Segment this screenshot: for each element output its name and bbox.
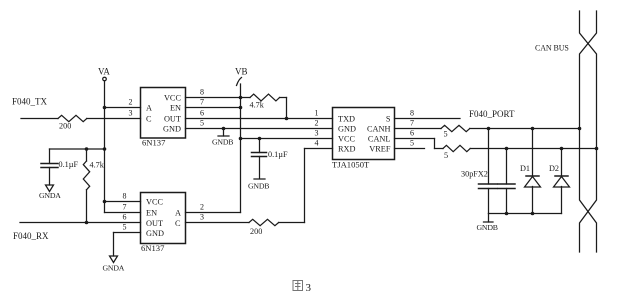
svg-text:F040_RX: F040_RX <box>13 231 49 241</box>
svg-text:D2: D2 <box>549 164 559 173</box>
svg-text:6N137: 6N137 <box>141 243 165 253</box>
svg-text:GNDB: GNDB <box>212 138 233 147</box>
svg-text:8: 8 <box>123 192 127 201</box>
svg-text:VCC: VCC <box>338 134 356 143</box>
resistor 4.7k (B side pull-up) <box>241 94 287 118</box>
wire opto2 VCC <box>105 201 141 203</box>
svg-text:6: 6 <box>123 213 127 222</box>
wire TX input <box>21 118 58 120</box>
capacitor 0.1uF (B side) <box>252 139 288 179</box>
ground GNDB (cap B) <box>248 179 269 191</box>
junction VA/opto2 VCC <box>103 200 107 204</box>
svg-text:200: 200 <box>59 122 71 131</box>
svg-text:VCC: VCC <box>164 94 182 103</box>
svg-text:8: 8 <box>200 88 204 97</box>
junction VB/EN1 <box>239 106 243 110</box>
svg-text:EN: EN <box>146 209 157 218</box>
wire opto2 anode to VB <box>186 212 241 214</box>
wire TJA S stub <box>395 118 461 120</box>
svg-text:2: 2 <box>200 203 204 212</box>
wire TJA RXD <box>305 149 333 223</box>
svg-text:RXD: RXD <box>338 145 356 154</box>
svg-text:4.7k: 4.7k <box>90 161 105 170</box>
junction GNDB stub <box>222 127 226 131</box>
wire VB vertical rail <box>240 84 242 213</box>
svg-text:30pFX2: 30pFX2 <box>461 170 488 179</box>
wire opto1 EN to VB <box>186 107 241 109</box>
resistor 200 (TX series) <box>58 115 87 130</box>
svg-text:VA: VA <box>98 67 110 77</box>
ground GNDB (opto1) <box>212 129 233 147</box>
junction CANH/D1 <box>531 127 535 131</box>
junction VB/TJA VCC <box>239 137 243 141</box>
diode D1 <box>520 129 541 214</box>
ground GNDA (left) <box>39 185 61 200</box>
node VA terminal <box>98 67 110 81</box>
wire TJA VREF stub <box>395 148 425 150</box>
node VB terminal <box>235 67 248 86</box>
capacitor 30pF no.2 <box>498 149 515 214</box>
svg-text:TJA1050T: TJA1050T <box>332 160 370 170</box>
svg-text:GND: GND <box>163 124 181 133</box>
svg-text:5: 5 <box>444 151 448 160</box>
svg-text:OUT: OUT <box>164 114 181 123</box>
svg-text:S: S <box>386 114 391 123</box>
svg-text:GND: GND <box>338 124 356 133</box>
svg-text:VB: VB <box>235 67 248 77</box>
wire F040_RX line <box>20 222 141 224</box>
svg-text:GNDA: GNDA <box>39 191 61 200</box>
wire opto1 OUT to TJA TXD <box>186 118 333 120</box>
junction VA/opto1 anode <box>103 106 107 110</box>
wire opto1 GND to TJA GND <box>186 128 333 130</box>
svg-text:TXD: TXD <box>338 114 355 123</box>
svg-text:EN: EN <box>170 104 181 113</box>
wire VB to TJA VCC <box>241 138 333 140</box>
svg-text:5: 5 <box>200 119 204 128</box>
junction pull-up/TXD <box>285 117 289 121</box>
junction CANL/bus <box>595 147 599 151</box>
junction CANH/cap1 <box>487 127 491 131</box>
svg-text:OUT: OUT <box>146 219 163 228</box>
svg-text:5: 5 <box>410 139 414 148</box>
svg-text:VCC: VCC <box>146 198 164 207</box>
wire opto1 anode <box>105 107 141 109</box>
capacitor 0.1uF (A side) <box>41 149 78 185</box>
svg-text:0.1µF: 0.1µF <box>268 150 288 159</box>
svg-text:2: 2 <box>129 98 133 107</box>
capacitor 30pF no.1 <box>479 129 498 214</box>
svg-text:F040_PORT: F040_PORT <box>469 109 515 119</box>
svg-text:6: 6 <box>200 109 204 118</box>
caption figure 3 <box>293 281 303 291</box>
CAN bus wire A <box>580 11 597 252</box>
svg-text:A: A <box>175 209 181 218</box>
wire CANH to bus <box>470 128 580 130</box>
wire CANL jog <box>395 139 444 149</box>
svg-text:C: C <box>175 219 181 228</box>
resistor 5 (CANH series) <box>441 125 470 138</box>
junction CANH/bus <box>578 127 582 131</box>
svg-text:6N137: 6N137 <box>142 138 166 148</box>
junction rail/cap2 <box>505 212 509 216</box>
wire RX resistor to RXD <box>279 222 305 224</box>
svg-text:7: 7 <box>410 119 414 128</box>
svg-text:5: 5 <box>444 130 448 139</box>
svg-text:F040_TX: F040_TX <box>12 97 48 107</box>
svg-text:3: 3 <box>315 129 319 138</box>
svg-text:3: 3 <box>306 282 312 294</box>
wire VA vertical rail <box>104 81 106 213</box>
svg-text:4.7k: 4.7k <box>250 101 265 110</box>
svg-text:A: A <box>146 104 152 113</box>
opto-coupler U2 6N137 <box>141 193 186 254</box>
transceiver TJA1050T <box>332 108 395 170</box>
diode D2 <box>549 149 570 214</box>
wire decoupling rail <box>50 148 105 150</box>
wire opto1 VCC to VB <box>186 97 241 99</box>
ground GNDA (opto2) <box>103 233 125 273</box>
ground GNDB (bus side) <box>477 214 498 233</box>
junction rail/4.7k <box>85 147 89 151</box>
wire CANL to bus <box>470 148 596 150</box>
svg-text:4: 4 <box>315 139 319 148</box>
wire opto2 GND <box>114 232 141 234</box>
svg-text:CANH: CANH <box>367 124 391 133</box>
resistor 200 (RX series) <box>249 219 279 236</box>
svg-text:3: 3 <box>200 213 204 222</box>
svg-text:GNDB: GNDB <box>477 223 498 232</box>
svg-text:CAN BUS: CAN BUS <box>535 44 569 53</box>
junction CANL/D2 <box>560 147 564 151</box>
svg-text:7: 7 <box>200 98 204 107</box>
CAN bus wire B <box>580 11 597 252</box>
svg-text:1: 1 <box>315 109 319 118</box>
resistor 4.7k (A side pull-up) <box>83 149 104 223</box>
svg-text:8: 8 <box>410 109 414 118</box>
svg-text:0.1µF: 0.1µF <box>59 160 79 169</box>
svg-text:GNDB: GNDB <box>248 182 269 191</box>
wire opto2 EN <box>105 212 141 214</box>
svg-text:7: 7 <box>123 203 127 212</box>
ground rail GNDB (bus side) <box>489 213 562 215</box>
svg-text:CANL: CANL <box>368 134 391 143</box>
svg-text:5: 5 <box>123 223 127 232</box>
junction VB/VCC1 <box>239 96 243 100</box>
svg-text:C: C <box>146 114 152 123</box>
resistor 5 (CANL series) <box>443 145 470 160</box>
svg-text:200: 200 <box>250 227 262 236</box>
junction 4.7k/RX line <box>85 221 89 225</box>
wire TX to opto1 cathode <box>87 118 141 120</box>
svg-text:GNDA: GNDA <box>103 264 125 273</box>
svg-text:GND: GND <box>146 229 164 238</box>
svg-text:3: 3 <box>129 109 133 118</box>
svg-text:VREF: VREF <box>369 145 391 154</box>
junction VCC/cap B <box>258 137 262 141</box>
wire opto2 cathode <box>186 222 250 224</box>
junction rail/D1 <box>531 212 535 216</box>
opto-coupler U1 6N137 <box>141 88 186 148</box>
svg-text:D1: D1 <box>520 164 530 173</box>
junction CANL/cap2 <box>505 147 509 151</box>
wire CANH <box>395 128 442 130</box>
junction VA/decoupling rail <box>103 147 107 151</box>
svg-text:2: 2 <box>315 119 319 128</box>
svg-text:6: 6 <box>410 129 414 138</box>
